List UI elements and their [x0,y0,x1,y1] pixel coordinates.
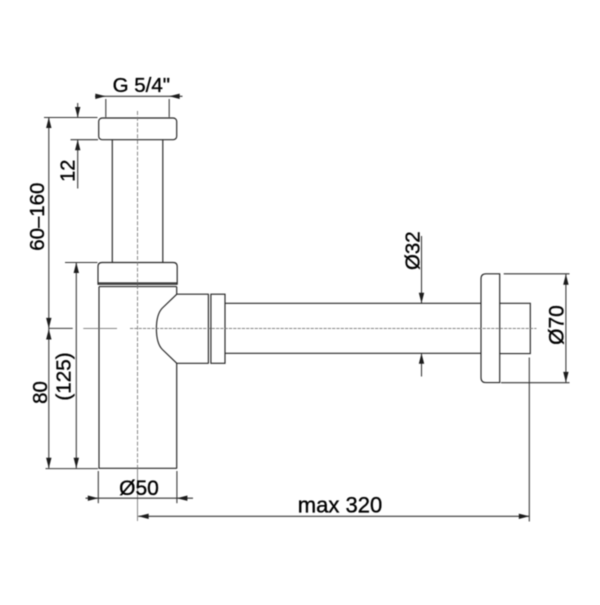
O50 right arrow [177,496,188,501]
bullet elbow (covers body right edge) [156,294,208,363]
part outlines [98,118,177,468]
O32 top arrow (down) [419,293,424,304]
12 bottom arrow (up) [75,140,80,151]
svg-text:Ø70: Ø70 [545,305,568,345]
80 bottom arrow (down) [46,458,51,469]
elbow nut [211,294,225,363]
max320 dimension line [138,515,529,517]
max320 left arrow [138,514,149,519]
svg-text:60–160: 60–160 [27,183,49,251]
horizontal pipe top wall [225,302,481,304]
left extension line body bottom [46,468,99,470]
svg-text:12: 12 [58,160,80,182]
G5/4 dimension line [95,95,183,97]
vertical body centerline (dashed) [137,111,139,469]
80 top arrow (up) [46,329,51,340]
body outline [99,287,177,469]
left extension line flange top [44,117,98,119]
O70 extension top [504,273,570,275]
G5/4 extension lines [105,99,107,117]
O70 top arrow (up) [563,274,568,285]
tailpipe right wall [162,140,164,263]
12 top arrow (down) [75,107,80,118]
G5/4 left arrow [95,94,106,99]
cup slip nut [98,263,177,285]
dim line 60-160 / 80 [48,118,50,469]
tailpipe left wall [111,140,113,263]
svg-text:Ø32: Ø32 [403,231,425,270]
wall stub pipe [500,303,531,353]
centerlines [83,111,536,521]
dim line 125 [75,263,77,469]
left extension line centerline y [49,327,73,329]
G5/4 right arrow [169,94,180,99]
dim line 12 [77,103,79,189]
body top shoulder line [99,286,177,288]
left extension line flange bottom [71,139,99,141]
svg-text:(125): (125) [53,352,76,400]
cup nut lower edge line [98,282,177,284]
125 top arrow (up) [74,263,79,274]
60-160 top arrow (up) [46,118,51,129]
125 bottom arrow (down) [74,458,79,469]
vertical centerline extension to max320 [137,468,139,521]
left extension line cup top [65,262,98,264]
O32 dim line upper [421,236,423,303]
svg-text:80: 80 [30,381,52,404]
O70 dim line [565,274,567,382]
O32 bottom arrow (up) [419,353,424,364]
O70 bottom arrow (down) [563,372,568,383]
O50 extension lines [97,471,99,503]
dimension graphics [44,96,570,521]
O32 dim line lower [421,353,423,376]
O70 extension bottom [501,382,570,384]
horizontal pipe centerline (dash-dot) [130,327,537,329]
horizontal pipe bottom wall [225,352,481,354]
wall flange rosette [481,274,500,383]
horizontal centerline solid segment into body [83,327,117,329]
top flange nut [99,118,177,140]
max320 right extension [528,358,530,522]
svg-text:Ø50: Ø50 [119,477,159,500]
60-160 bottom arrow (down) [46,318,51,329]
svg-text:max 320: max 320 [298,492,382,517]
svg-text:G 5/4": G 5/4" [113,74,170,97]
O50 left arrow [88,496,99,501]
max320 right arrow [519,514,530,519]
arrowheads [46,94,569,519]
O50 dimension line [86,497,194,499]
